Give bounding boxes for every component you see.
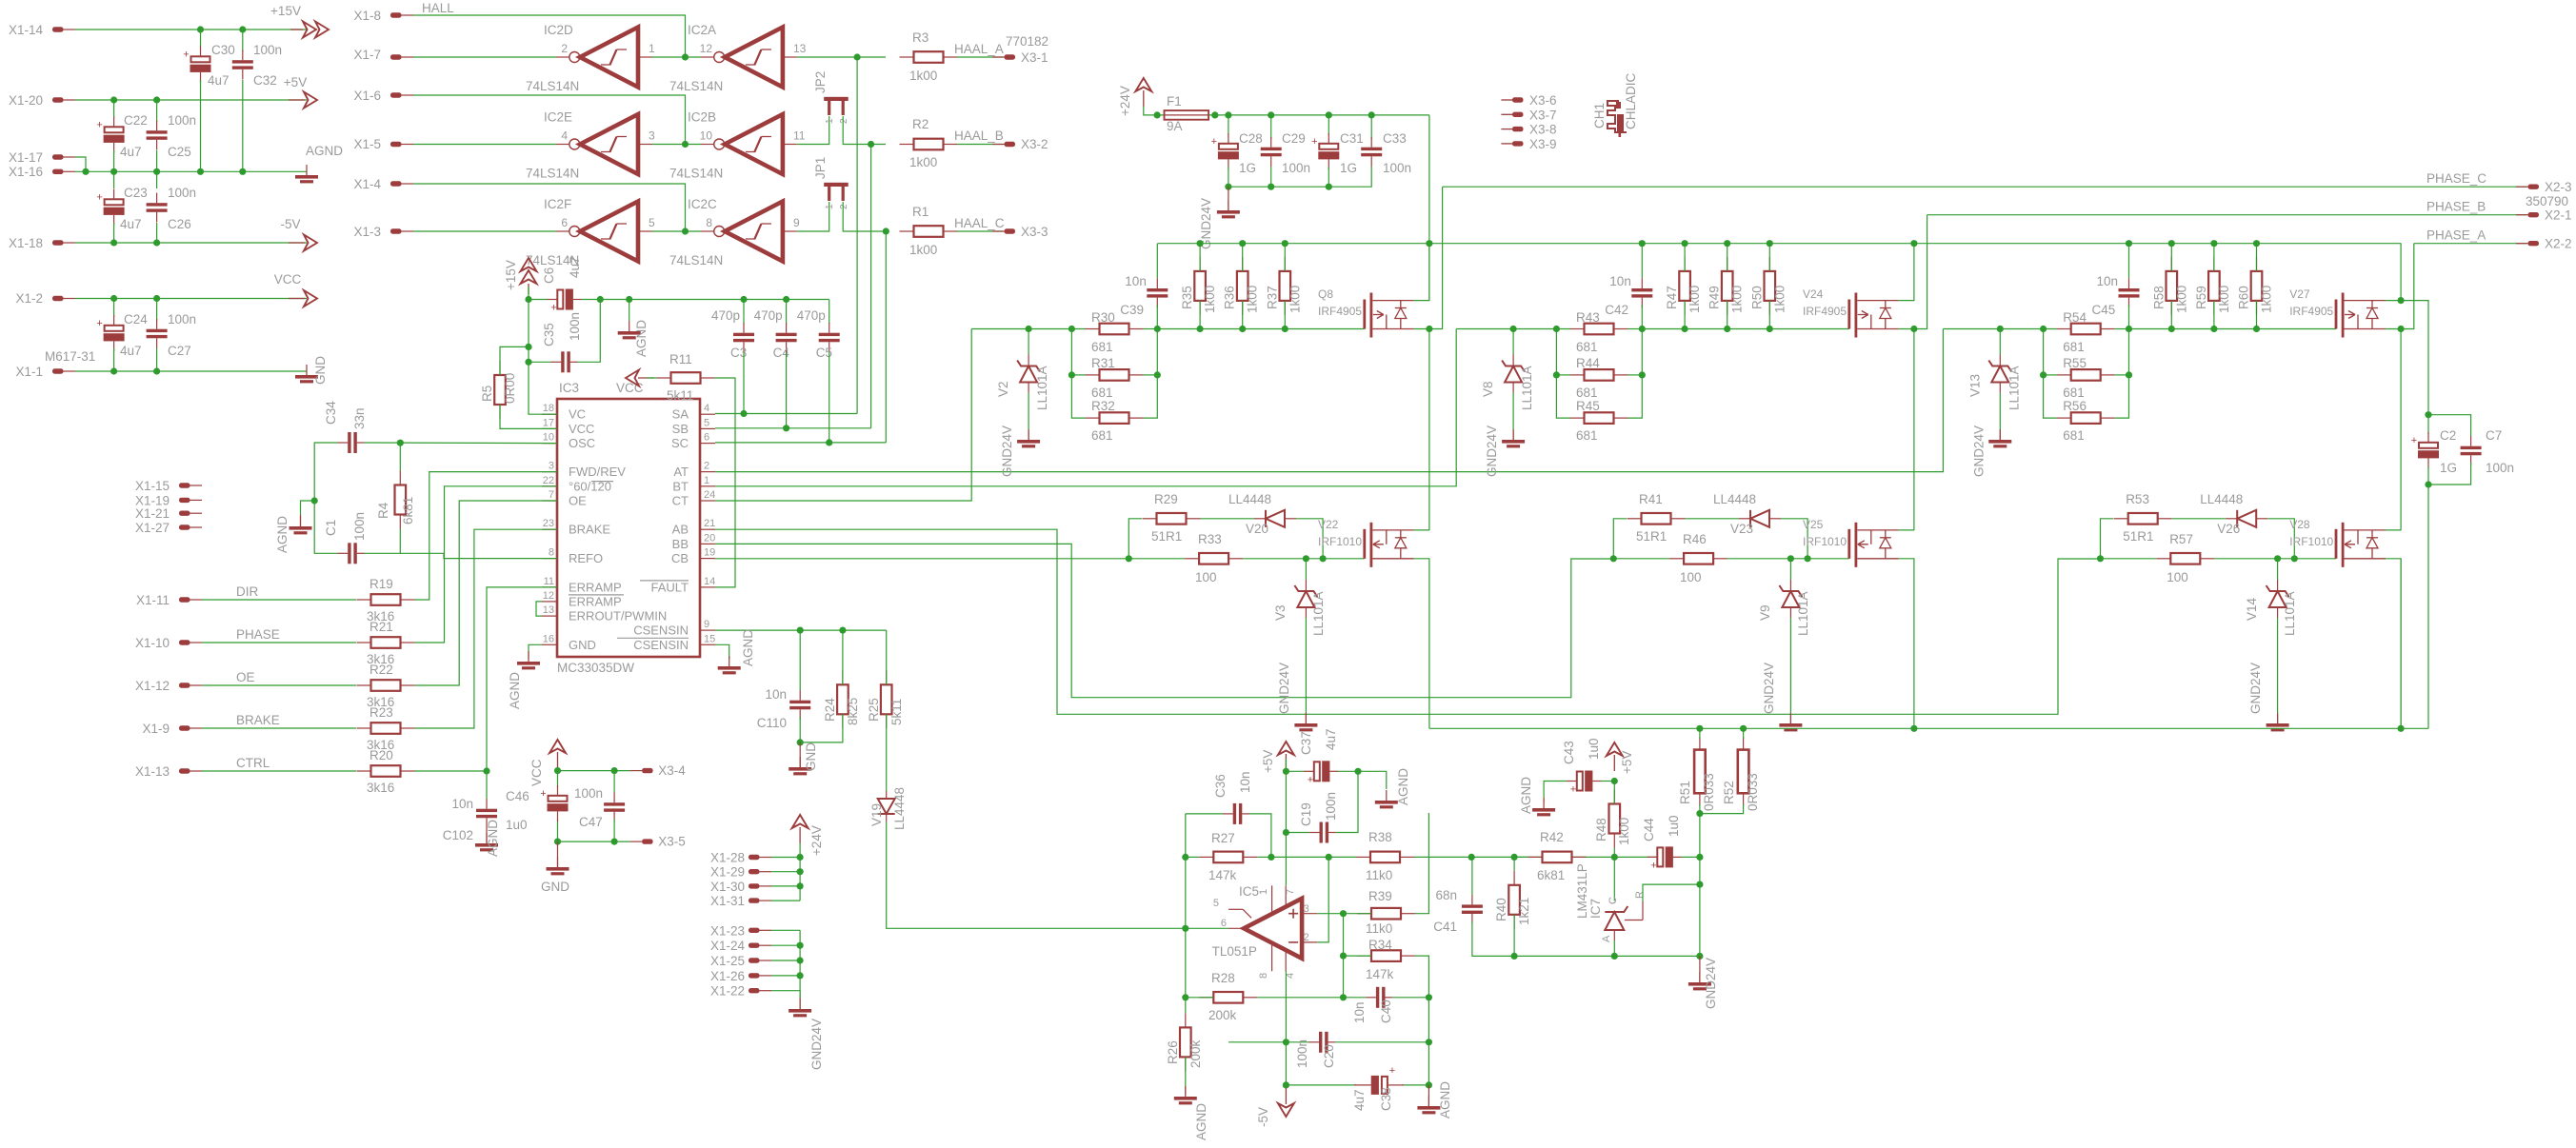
capacitor C29: [1261, 148, 1282, 157]
node C20 left: [1283, 1039, 1289, 1045]
svg-text:X1-16: X1-16: [9, 165, 43, 179]
connector pin X3-6: [1501, 99, 1512, 101]
connector pin X1-11: [179, 597, 190, 602]
transistor V27 IRF4905: [2335, 293, 2386, 338]
node C19 left: [1283, 829, 1289, 836]
inverter IC2F: [569, 227, 580, 237]
resistor R51: [1694, 750, 1706, 794]
wire C40 right: [1392, 997, 1428, 999]
wire bottom gate up to R29 row: [2101, 519, 2114, 559]
wire rail to C31: [1328, 115, 1329, 135]
wire cap to gnd rail: [1328, 167, 1329, 187]
wire HALL: [413, 15, 686, 57]
resistor R50: [1765, 257, 1776, 315]
svg-text:LL101A: LL101A: [1035, 366, 1049, 410]
node rail cap: [2126, 240, 2132, 247]
node AGND rail: [239, 168, 246, 175]
wire IC2A out: [797, 56, 886, 58]
svg-text:R55: R55: [2063, 356, 2087, 370]
wire JP1 pin2 to R1: [843, 202, 886, 231]
node stack right mid: [2126, 371, 2132, 378]
svg-text:ERRAMP: ERRAMP: [569, 580, 622, 594]
wire gate node row: [1456, 328, 1570, 330]
svg-text:R: R: [1634, 891, 1646, 899]
pin 5 SB IC3: [700, 427, 715, 429]
capacitor C33: [1361, 148, 1382, 157]
node F1 right: [1211, 111, 1218, 118]
wire R51 bot: [1699, 804, 1701, 814]
resistor R54: [2057, 324, 2115, 335]
wire drain to phase: [1899, 215, 1927, 329]
svg-text:X1-20: X1-20: [9, 93, 43, 108]
pin 15 CSENSIN IC3: [700, 643, 715, 645]
node zener tap: [1026, 326, 1032, 332]
wire rail to R35: [1199, 244, 1201, 271]
ground AGND C37: [1375, 801, 1398, 808]
node +15V C30: [197, 26, 204, 32]
pin 20 BB IC3: [700, 543, 715, 544]
zener diode V8: [1502, 361, 1525, 383]
connector pin X1-28: [749, 855, 760, 860]
node zener2 tap: [2274, 555, 2281, 562]
wire +15V to C32: [242, 30, 244, 51]
svg-text:10n: 10n: [2097, 274, 2119, 288]
wire -5V rail: [75, 242, 307, 244]
wire to R42: [1514, 856, 1528, 858]
connector pin X1-30: [749, 883, 760, 888]
node C35 right top: [597, 296, 604, 303]
wire PHASE_A: [2414, 243, 2526, 245]
capacitor C25: [147, 130, 168, 140]
wire R47 to gate row: [1684, 301, 1686, 329]
wire NMOS drain stub: [1414, 529, 1429, 531]
ground GND24V sense: [1688, 982, 1711, 990]
connector pin X1-29: [749, 869, 760, 874]
resistor R46: [1669, 553, 1727, 564]
svg-text:1: 1: [704, 475, 709, 486]
svg-text:BRAKE: BRAKE: [569, 523, 610, 537]
wire stack right column: [2115, 329, 2129, 419]
wire drain to phase: [1414, 187, 1443, 328]
node row3 junction: [682, 228, 689, 234]
wire bottom gate up to R29 row: [1613, 519, 1627, 559]
svg-text:GND24V: GND24V: [809, 1019, 824, 1070]
wire gnd cap rail: [1228, 167, 1371, 187]
ground GND24V caps: [1217, 210, 1240, 218]
svg-text:11: 11: [793, 129, 806, 143]
svg-text:4u7: 4u7: [208, 73, 230, 88]
svg-text:BB: BB: [672, 537, 689, 551]
connector pin X1-16: [52, 169, 64, 174]
wire IC2D out to IC2A in: [652, 56, 701, 58]
svg-text:+: +: [2411, 435, 2417, 446]
wire C1 right to R4: [365, 529, 401, 554]
svg-text:5k11: 5k11: [889, 699, 904, 725]
wire C24 to GND: [113, 348, 115, 371]
ground AGND C102: [475, 843, 498, 851]
svg-text:R36: R36: [1223, 286, 1237, 309]
svg-text:X3-7: X3-7: [1529, 108, 1557, 122]
wire +24V rail: [1158, 243, 2402, 245]
resistor R19: [357, 594, 415, 605]
supply +15V arrow IC3: [521, 258, 537, 294]
svg-text:X3-9: X3-9: [1529, 137, 1557, 151]
wire Rt2 left: [2044, 374, 2057, 376]
capacitor C4: [776, 333, 797, 343]
node X1-30: [797, 882, 804, 889]
wire C22 to AGND: [113, 150, 115, 171]
wire zener to gnd: [1028, 393, 1029, 434]
node IC7 gnd: [1611, 953, 1618, 960]
node gate row R47: [1682, 326, 1688, 332]
svg-text:X1-18: X1-18: [9, 236, 43, 250]
resistor R34: [1357, 950, 1415, 961]
wire gnd row: [1472, 921, 1700, 957]
wire NMOS source down: [1414, 559, 1429, 729]
svg-text:PHASE_C: PHASE_C: [2426, 171, 2486, 186]
wire NMOS drain stub: [1899, 529, 1914, 531]
wire C23 to AGND: [113, 171, 115, 188]
svg-text:X3-4: X3-4: [658, 763, 686, 778]
svg-text:CTRL: CTRL: [236, 756, 270, 770]
svg-text:4u7: 4u7: [1352, 1089, 1367, 1111]
svg-text:V22: V22: [1318, 518, 1339, 531]
connector pin X2-1: [2528, 212, 2540, 217]
wire pin2 up: [1317, 857, 1328, 942]
fuse F1: [1165, 110, 1209, 120]
svg-text:M617-31: M617-31: [45, 349, 95, 364]
pin 18 VC IC3: [542, 413, 557, 415]
wire C34 to OSC: [365, 442, 558, 445]
svg-text:VCC: VCC: [274, 272, 302, 287]
wire R29 to V20: [2172, 518, 2227, 520]
svg-text:X1-3: X1-3: [353, 225, 381, 239]
zener diode V13: [1988, 361, 2011, 383]
svg-text:C: C: [1608, 897, 1619, 904]
resistor R41: [1627, 513, 1686, 525]
IC IC3 body: [557, 399, 700, 657]
svg-text:147k: 147k: [1366, 967, 1394, 981]
svg-text:R44: R44: [1576, 356, 1600, 370]
node X1-28: [797, 854, 804, 861]
capacitor C22: [105, 127, 124, 132]
wire VCC rail: [75, 298, 307, 300]
jumper JP1: [824, 183, 849, 201]
node rail source: [1910, 240, 1917, 247]
svg-text:R50: R50: [1749, 286, 1764, 309]
svg-text:R54: R54: [2063, 310, 2087, 325]
svg-text:IC2D: IC2D: [544, 23, 573, 37]
svg-text:REFO: REFO: [569, 551, 603, 565]
svg-text:C46: C46: [506, 789, 529, 803]
connector pin X1-19: [179, 498, 190, 503]
capacitor C26: [147, 203, 168, 212]
wire rail to R58: [2170, 244, 2172, 271]
connector pin X1-2: [52, 296, 64, 301]
wire V20 down to gate node: [2267, 519, 2294, 559]
svg-text:C38: C38: [1379, 1087, 1393, 1111]
svg-text:R28: R28: [1211, 971, 1235, 985]
node drain: [1910, 326, 1917, 332]
svg-text:LL101A: LL101A: [2007, 366, 2021, 410]
connector pin X1-21: [179, 511, 190, 516]
node bottom gate right: [2291, 555, 2298, 562]
node HALL junction: [682, 53, 689, 60]
wire source sense rail: [1429, 727, 2428, 729]
svg-text:X1-5: X1-5: [353, 137, 381, 151]
wire BT bus: [715, 329, 1456, 486]
svg-text:+24V: +24V: [809, 825, 824, 856]
svg-text:R53: R53: [2126, 492, 2149, 506]
resistor R53: [2114, 513, 2172, 525]
wire R38 right: [1414, 856, 1471, 858]
capacitor C23: [105, 199, 124, 205]
svg-text:C24: C24: [124, 312, 148, 327]
wire gnd col: [1699, 814, 1701, 957]
node HAAL_A: [854, 53, 861, 60]
svg-text:C20: C20: [1322, 1044, 1336, 1068]
node AGND tap: [626, 296, 632, 303]
svg-text:100n: 100n: [568, 312, 582, 341]
wire X3-5 row: [558, 841, 630, 842]
wire CT bus: [715, 329, 971, 502]
svg-text:C1: C1: [324, 520, 338, 536]
wire to R27: [1186, 856, 1200, 858]
wire X1-25: [771, 960, 800, 961]
wire IC2E out to IC2B in: [652, 144, 701, 146]
svg-text:4: 4: [561, 129, 568, 143]
svg-text:17: 17: [543, 417, 554, 428]
svg-text:IRF4905: IRF4905: [1803, 305, 1847, 318]
wire X1-24: [771, 944, 800, 946]
svg-text:C27: C27: [168, 344, 191, 358]
wire C47 bot lead: [613, 820, 615, 842]
svg-text:C41: C41: [1433, 920, 1457, 934]
svg-text:IRF1010: IRF1010: [1318, 535, 1362, 548]
svg-text:X1-31: X1-31: [710, 894, 745, 908]
wire to C2: [2427, 415, 2429, 434]
wire IC5 out: [1186, 927, 1228, 929]
svg-text:V26: V26: [2217, 522, 2240, 536]
connector pin X1-4: [390, 181, 402, 186]
wire C2 gnd col: [2427, 485, 2429, 728]
svg-text:R58: R58: [2151, 286, 2166, 309]
wire IC7 anode gnd: [1613, 940, 1615, 956]
node gate node right: [1154, 326, 1161, 332]
wire to zener2: [2277, 559, 2279, 580]
svg-text:+: +: [550, 303, 556, 314]
svg-text:CB: CB: [671, 551, 689, 565]
svg-text:X1-2: X1-2: [15, 291, 43, 306]
wire AGND rail: [75, 170, 307, 172]
node gate row R35: [1197, 326, 1204, 332]
capacitor C30: [191, 56, 210, 62]
svg-text:VC: VC: [569, 407, 586, 422]
wire +5V to C22: [113, 100, 115, 118]
wire C36 left: [1186, 813, 1223, 815]
svg-text:681: 681: [1576, 428, 1598, 443]
pin 19 CB IC3: [700, 558, 715, 560]
wire OE to IC3: [415, 501, 558, 685]
svg-text:3: 3: [649, 129, 655, 143]
wire cap to gate row: [1156, 305, 1158, 328]
wire C5 to SC: [829, 352, 830, 443]
wire C7 top: [2428, 415, 2471, 436]
wire gate row to PMOS gate: [1157, 328, 1365, 330]
connector pin X1-27: [179, 525, 190, 529]
svg-text:11k0: 11k0: [1366, 868, 1392, 882]
wire C35 left: [529, 361, 551, 363]
svg-text:2: 2: [839, 204, 849, 209]
resistor R56: [2057, 412, 2115, 424]
svg-text:100n: 100n: [168, 312, 196, 327]
capacitor C2: [2419, 443, 2438, 448]
connector pin X3-7: [1501, 113, 1512, 115]
resistor R28: [1199, 992, 1257, 1003]
resistor R5: [494, 361, 506, 419]
wire AT bus: [715, 329, 1943, 472]
svg-text:LL4448: LL4448: [1228, 492, 1271, 506]
svg-text:MC33035DW: MC33035DW: [557, 661, 634, 675]
wire VCC to C27: [156, 299, 158, 322]
wire C19 right up: [1336, 771, 1358, 832]
wire PHASE to IC3: [415, 486, 558, 643]
svg-text:C26: C26: [168, 217, 191, 231]
connector pin X1-14: [52, 27, 64, 31]
wire HAAL_B to SB: [870, 145, 872, 428]
wire BRAKE: [202, 727, 356, 729]
wire R33 to NMOS gate: [1727, 558, 1849, 560]
wire rail to R36: [1242, 244, 1244, 271]
wire to R33: [2101, 558, 2157, 560]
svg-text:10n: 10n: [1238, 771, 1252, 793]
wire to C4: [786, 300, 788, 325]
wire cap to gate row: [1641, 305, 1643, 328]
svg-text:C6: C6: [542, 267, 556, 284]
connector pin X1-13: [179, 768, 190, 773]
capacitor C27: [147, 329, 168, 339]
svg-text:V14: V14: [2245, 597, 2259, 621]
svg-text:JP2: JP2: [813, 71, 828, 93]
svg-text:X1-15: X1-15: [135, 479, 170, 493]
wire +15V to C30: [200, 30, 202, 48]
wire +24V pin column: [799, 843, 801, 901]
node gate row R50: [1767, 326, 1773, 332]
svg-text:C23: C23: [124, 186, 148, 200]
node stack right mid: [1154, 371, 1161, 378]
resistor R29: [1143, 513, 1201, 525]
svg-text:R35: R35: [1180, 286, 1194, 309]
connector pin X1-6: [390, 92, 402, 97]
node OSC: [397, 440, 404, 446]
svg-text:CHLADIC: CHLADIC: [1624, 72, 1638, 129]
svg-text:FAULT: FAULT: [651, 580, 689, 594]
node C47 top: [611, 767, 618, 774]
svg-text:HALL: HALL: [422, 1, 454, 15]
svg-text:VCC: VCC: [616, 381, 644, 395]
svg-text:AGND: AGND: [1438, 1081, 1452, 1118]
wire R58 to gate row: [2170, 301, 2172, 329]
svg-text:CSENSIN: CSENSIN: [633, 623, 689, 638]
pin 13 ERROUT/PWMIN IC3: [542, 615, 557, 617]
capacitor C110: [789, 701, 810, 710]
wire drain down to NMOS drain: [1913, 329, 1915, 531]
svg-text:C110: C110: [757, 716, 787, 730]
wire HAAL_C to SC: [885, 231, 887, 443]
wire rail to V28 source: [2400, 559, 2402, 728]
node VCC C27: [153, 295, 160, 302]
svg-text:IC5: IC5: [1239, 884, 1259, 899]
svg-text:+15V: +15V: [270, 4, 301, 18]
wire R27 right lead: [1257, 856, 1271, 858]
node C35 left: [525, 359, 531, 366]
wire R39 left: [1344, 913, 1372, 915]
wire fb left col: [1185, 814, 1187, 998]
svg-text:X3-3: X3-3: [1021, 225, 1048, 239]
svg-text:CH1: CH1: [1592, 103, 1607, 129]
wire to zener2: [1789, 559, 1791, 580]
svg-text:100: 100: [1680, 570, 1702, 584]
svg-text:+: +: [96, 120, 102, 131]
wire C36 right: [1249, 814, 1271, 858]
wire inv col: [1343, 914, 1345, 998]
svg-text:+: +: [183, 49, 189, 61]
node bottom gate left: [1610, 555, 1617, 562]
node gate node right: [2126, 326, 2132, 332]
node gate row R60: [2253, 326, 2260, 332]
svg-text:10n: 10n: [451, 797, 473, 811]
node R38 inv: [1326, 854, 1332, 861]
zener diode V14: [2266, 585, 2289, 607]
pin 21 AB IC3: [700, 528, 715, 530]
pin 4 SA IC3: [700, 413, 715, 415]
wire R25 top: [886, 630, 888, 684]
capacitor C36: [1233, 803, 1243, 824]
wire PMOS source to rail: [1414, 244, 1429, 301]
node rail V25: [1910, 725, 1917, 732]
node rail R59: [2210, 240, 2217, 247]
resistor R60: [2251, 257, 2263, 315]
node +24V rail Q8: [1426, 240, 1432, 247]
svg-text:+: +: [96, 192, 102, 204]
node C2 bot: [2425, 481, 2431, 487]
wire rail to C33: [1370, 115, 1372, 139]
svg-text:C5: C5: [816, 346, 832, 360]
svg-text:6: 6: [561, 216, 568, 229]
svg-text:14: 14: [704, 576, 715, 587]
svg-text:470p: 470p: [754, 308, 783, 323]
wire R33 to NMOS gate: [2214, 558, 2336, 560]
svg-text:681: 681: [1576, 386, 1598, 400]
svg-text:BRAKE: BRAKE: [236, 713, 280, 727]
connector pin X1-1: [52, 368, 64, 373]
svg-text:C7: C7: [2486, 428, 2502, 443]
connector pin X2-2: [2528, 241, 2540, 246]
svg-text:681: 681: [2063, 386, 2085, 400]
svg-text:1: 1: [825, 204, 835, 209]
resistor R4: [395, 471, 407, 529]
pin 7 OE IC3: [542, 500, 557, 502]
svg-text:GND: GND: [569, 638, 596, 652]
svg-text:V27: V27: [2289, 287, 2310, 301]
svg-text:AGND: AGND: [634, 320, 649, 357]
wire gate node row: [971, 328, 1085, 330]
svg-text:HAAL_B: HAAL_B: [954, 129, 1004, 143]
svg-text:13: 13: [543, 604, 554, 616]
wire AB bus: [715, 529, 2101, 714]
svg-text:-5V: -5V: [1256, 1107, 1270, 1127]
svg-text:F1: F1: [1167, 94, 1182, 109]
